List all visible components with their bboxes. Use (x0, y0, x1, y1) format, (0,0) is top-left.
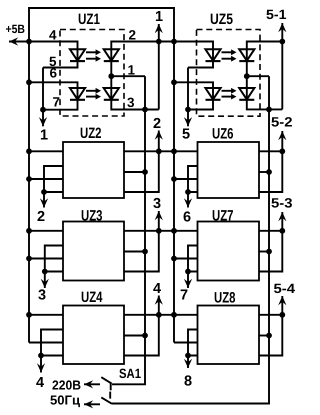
svg-text:6: 6 (183, 210, 191, 226)
wire left bus row to UZ4 pin row3 (29, 342, 63, 344)
svg-text:3: 3 (153, 196, 161, 212)
wire PD1 cathode to node (110, 60, 112, 88)
wire UZ3 right row3 link up (124, 231, 159, 272)
wire UZ5 pin1 row (247, 75, 269, 77)
diode LED1 of UZ5 (205, 49, 220, 61)
svg-text:1: 1 (155, 9, 163, 25)
arrow signal 5 down (184, 117, 192, 126)
node bus at UZ3 row3 (26, 256, 32, 262)
wire signal 2 stub down (43, 192, 45, 208)
arrow signal 1 down (39, 117, 47, 126)
svg-text:SA1: SA1 (119, 366, 141, 381)
wire signal 1 stub (42, 110, 44, 127)
svg-text:UZ7: UZ7 (212, 208, 234, 225)
svg-text:5-2: 5-2 (271, 115, 293, 130)
svg-text:UZ1: UZ1 (78, 11, 100, 28)
arrow signal 6 down (184, 198, 192, 207)
node R1 at UZ5 pin3 row (266, 107, 272, 113)
wire UZ4 left row1 from bus (29, 314, 63, 316)
wire UZ5 LED2 cathode to pin7 row (188, 99, 213, 110)
node middle bus at row1-1 (171, 148, 177, 154)
node R2 at UZ8 row1 (279, 312, 285, 318)
arrow signal 4 up (155, 296, 163, 305)
diode PD1 of UZ1 (104, 49, 119, 61)
wire UZ6 left row2 link (188, 166, 198, 192)
node UZ5 pin7 junction (185, 107, 191, 113)
node v1 at UZ3 row2 (142, 249, 148, 255)
wire signal 3 stub down (44, 272, 46, 289)
light arrows UZ1 lower (86, 88, 101, 100)
arrow signal 8 down (184, 359, 192, 368)
svg-text:220В: 220В (52, 378, 81, 393)
svg-text:+5В: +5В (6, 22, 26, 36)
node R1 at UZ6 row2 (266, 169, 272, 175)
arrow signal 7 down (184, 279, 192, 288)
svg-text:3: 3 (127, 95, 135, 110)
block UZ7 body (198, 222, 260, 281)
node middle bus at UZ5 pin6 (171, 79, 177, 85)
wire UZ1 pin6 row (29, 82, 78, 88)
node UZ2 control junction (41, 189, 47, 195)
svg-text:5-1: 5-1 (266, 7, 287, 22)
arrow signal 2 up (155, 131, 163, 140)
wire UZ8 left row3 from middle bus (174, 342, 198, 344)
node v2 at +5V row (156, 39, 162, 45)
wire UZ2 right row1 long to right column (124, 150, 198, 152)
svg-text:UZ5: UZ5 (210, 11, 233, 28)
svg-text:1: 1 (40, 128, 48, 144)
node left bus at pin6 (26, 79, 32, 85)
arrow signal 3 down (41, 279, 49, 288)
node middle bus at UZ6 row3 (171, 176, 177, 182)
node UZ7 control junction (185, 269, 191, 275)
node UZ4 control junction (38, 353, 44, 359)
wire UZ3 left row3 from bus (29, 258, 63, 260)
wire UZ4 left row3 from bus (29, 342, 63, 344)
node bus at UZ4 row1 (26, 312, 32, 318)
node UZ1 photodiode junction (108, 73, 114, 79)
wire output 5-1 stub (281, 23, 283, 109)
node UZ6 control junction (185, 189, 191, 195)
svg-text:5-4: 5-4 (274, 281, 296, 296)
svg-text:2: 2 (37, 209, 45, 225)
wire UZ2 left row2 link (44, 166, 63, 192)
wire output 5-3 stub (281, 212, 283, 231)
wire UZ6 right row2 to mains R1 (259, 171, 269, 173)
diode PD1 of UZ5 (239, 49, 254, 61)
optocoupler UZ5 dashed body (197, 30, 261, 117)
wire signal 8 stub down (187, 356, 189, 369)
wire signal 3 up stub (158, 211, 160, 231)
node middle bus at +5V row (171, 39, 177, 45)
light arrows UZ5 lower (222, 88, 237, 100)
svg-text:6: 6 (50, 66, 58, 81)
wire signal 6 stub down (187, 192, 189, 208)
arrow output 5-4 up (278, 296, 286, 305)
svg-text:5-3: 5-3 (271, 196, 293, 211)
node R1 at UZ7 row2 (266, 249, 272, 255)
svg-text:7: 7 (53, 95, 61, 110)
wire signal 5 stub (187, 110, 189, 127)
svg-text:2: 2 (153, 116, 161, 132)
node middle bus at row1-2 (171, 228, 177, 234)
wire output 5-4 stub (281, 296, 283, 315)
wire UZ3 right row1 long to right column (124, 230, 198, 232)
node middle bus at UZ7 row3 (171, 256, 177, 262)
svg-text:2: 2 (129, 28, 137, 43)
svg-text:7: 7 (180, 288, 188, 304)
wire UZ1 pin5-pin7 link (42, 68, 44, 110)
wire UZ3 left row1 from bus (29, 230, 63, 232)
wire UZ4 right row1 long to right column (124, 314, 198, 316)
wire UZ2 right row2 to mains v1 (124, 171, 145, 173)
diode LED2 of UZ5 (205, 88, 220, 100)
wire UZ7 left row2 link (188, 246, 198, 272)
optocoupler UZ1 dashed body (60, 30, 124, 117)
light arrows UZ5 upper (222, 49, 237, 61)
wire UZ4 left row2 link (41, 330, 63, 356)
wire UZ5 pin3 row (247, 99, 282, 109)
node v1 at UZ1 pin3 row (142, 107, 148, 113)
wire UZ2 left row3 from bus (29, 178, 63, 180)
arrow output 5-3 up (278, 212, 286, 221)
node UZ5 photodiode junction (244, 73, 250, 79)
wire LED2 cathode to pin7 row (43, 99, 78, 110)
switch SA1 pole 1 contact (84, 377, 112, 390)
wire UZ1 pin3 row (111, 99, 159, 110)
node v1 at UZ2 row2 (142, 169, 148, 175)
wire UZ3 right row2 to mains v1 (124, 251, 145, 253)
wire signal 4 up stub (158, 296, 160, 315)
block UZ2 body (63, 142, 124, 198)
wire UZ1 pin4 row (29, 42, 78, 50)
wire middle bus vertical (173, 42, 175, 343)
node +5B supply arrow (9, 37, 29, 45)
wire UZ5 pin5-pin7 link (187, 68, 189, 110)
node R2 at UZ6 row1 (279, 148, 285, 154)
block UZ8 body (198, 306, 260, 365)
wire UZ6 left row3 from middle bus (174, 178, 198, 180)
wire UZ8 right row1 (259, 314, 282, 316)
node R2 at UZ7 row1 (279, 228, 285, 234)
wire mains line 1 vertical (112, 76, 145, 384)
svg-text:50Гц: 50Гц (50, 393, 80, 408)
diode PD2 of UZ5 (239, 88, 254, 100)
block UZ6 body (198, 142, 260, 198)
svg-text:UZ3: UZ3 (81, 208, 103, 225)
wire UZ7 right row1 (259, 230, 282, 232)
node pin7 junction (40, 107, 46, 113)
node middle bus at row1-3 (171, 312, 177, 318)
wire UZ4 right row3 link up (124, 315, 159, 356)
svg-text:UZ8: UZ8 (214, 290, 236, 307)
svg-text:UZ6: UZ6 (212, 126, 234, 143)
wire UZ1 pin1 row (111, 75, 145, 77)
node bus at UZ2 row3 (26, 176, 32, 182)
svg-text:3: 3 (38, 288, 46, 304)
arrow output 5-1 up (278, 23, 286, 32)
wire LED1 cathode to pin5 row (43, 60, 78, 67)
node UZ3 control junction (42, 269, 48, 275)
node R2 at UZ5 pin2 row (279, 39, 285, 45)
svg-text:UZ4: UZ4 (81, 289, 103, 306)
node v1 at UZ4 row2 (142, 333, 148, 339)
arrow output 5-2 up (278, 131, 286, 140)
node left bus at +5V row (26, 39, 32, 45)
arrow signal 1 up (155, 24, 163, 33)
wire UZ7 right row3 link up (259, 231, 282, 272)
node v2 at UZ2 row1 (156, 148, 162, 154)
wire top bus from +5V node to middle bus (29, 8, 174, 42)
wire UZ5 pin6 row (174, 82, 213, 88)
wire UZ2 right row3 link up (124, 151, 159, 192)
wire signal 1 up stub (158, 24, 160, 110)
light arrows UZ1 upper (86, 49, 101, 61)
svg-text:5: 5 (182, 127, 190, 143)
svg-text:8: 8 (184, 374, 192, 390)
svg-text:4: 4 (153, 281, 161, 297)
block UZ4 body (63, 306, 124, 365)
wire left bus vertical (28, 42, 30, 343)
wire mains line 2 vertical (112, 76, 269, 403)
wire UZ1 pin2 row from PD1 anode to UZ5 (111, 42, 213, 50)
wire UZ3 left row2 link (45, 246, 63, 272)
svg-text:4: 4 (49, 28, 57, 43)
arrow signal 3 up (155, 211, 163, 220)
arrow signal 4 down (37, 363, 45, 372)
block UZ3 body (63, 222, 124, 281)
svg-text:UZ2: UZ2 (80, 125, 102, 142)
diode LED2 of UZ1 (70, 88, 85, 100)
node v2 at UZ4 row1 (156, 312, 162, 318)
wire signal 4 stub down (40, 356, 42, 373)
wire output 5-2 stub (281, 131, 283, 151)
diode LED1 of UZ1 (70, 49, 85, 61)
switch SA1 pole 2 contact (84, 392, 112, 409)
wire middle bus row to UZ8 pin row3 (174, 342, 198, 344)
node bus at UZ3 row1 (26, 228, 32, 234)
node R1 at UZ8 row2 (266, 333, 272, 339)
svg-text:1: 1 (128, 63, 136, 78)
wire UZ4 right row2 to mains v1 (124, 335, 145, 337)
arrow signal 2 down (40, 198, 48, 207)
wire UZ5 LED1 cathode to pin5 row (188, 60, 213, 67)
wire UZ8 right row2 to mains R1 (259, 335, 269, 337)
wire signal 7 stub down (187, 272, 189, 289)
wire UZ8 right row3 link up (259, 315, 282, 356)
wire signal 2 up stub (158, 131, 160, 152)
wire UZ7 left row3 from middle bus (174, 258, 198, 260)
wire UZ6 right row3 link up (259, 151, 282, 192)
diode PD2 of UZ1 (104, 88, 119, 100)
wire UZ2 left row1 from bus (29, 150, 63, 152)
wire UZ7 right row2 to mains R1 (259, 251, 269, 253)
wire UZ6 right row1 (259, 150, 282, 152)
node UZ8 control junction (185, 353, 191, 359)
node v2 at UZ3 row1 (156, 228, 162, 234)
svg-text:4: 4 (36, 375, 44, 391)
wire UZ8 left row2 link (188, 330, 198, 356)
wire UZ5 PD1 cathode to junction (246, 60, 248, 88)
wire UZ5 pin2 row to output 5-1 (247, 42, 282, 50)
node bus at UZ2 row1 (26, 148, 32, 154)
